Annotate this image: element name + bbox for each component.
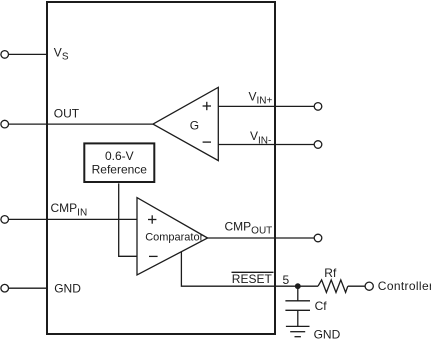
label RESET overline [232,271,274,273]
wire VS terminal to IC [9,53,47,55]
svg-text:0.6-V: 0.6-V [105,149,134,163]
label Cf [315,299,328,313]
svg-text:Cf: Cf [315,299,328,313]
svg-text:G: G [190,119,199,133]
svg-text:5: 5 [283,273,290,287]
wire junction to resistor [298,285,318,287]
wire VIN- to amp [218,144,314,146]
terminal CMPIN pin circle [1,216,9,224]
wire capacitor to ground [297,310,299,326]
label Comparator [145,231,203,243]
capacitor Cf [285,301,310,311]
terminal CMPOUT pin circle [314,234,322,242]
wire reference to comparator - input [119,183,137,256]
svg-text:CMPOUT: CMPOUT [225,219,273,236]
amp - input symbol [203,141,211,143]
svg-text:Rf: Rf [324,266,337,280]
pin number 5 [283,273,290,287]
label VIN+ [249,89,273,106]
wire CMPOUT from comparator apex [208,237,315,239]
terminal VS pin circle [1,51,9,59]
label RESET [232,272,273,286]
svg-text:Controller: Controller [378,279,431,293]
wire CMPIN terminal to comparator + input [9,218,138,220]
label GND (pin) [54,282,81,296]
terminal GND pin circle [1,284,9,292]
svg-text:GND: GND [54,282,81,296]
wire junction to capacitor [297,286,299,301]
wire resistor to controller terminal [348,285,365,287]
wire GND terminal to IC [9,287,47,289]
terminal OUT pin circle [1,120,9,128]
label CMPIN [51,201,88,218]
svg-text:VIN-: VIN- [250,129,271,146]
label OUT [54,107,80,121]
amp + input symbol [203,102,211,110]
op-amp G (gain amplifier, apex left) [153,87,218,160]
label Rf [324,266,337,280]
wire RESET net from comparator bottom edge to junction [181,252,298,287]
comparator U1 (apex right) [137,198,208,275]
label VS [54,45,69,62]
svg-text:VS: VS [54,45,69,62]
terminal VIN+ pin circle [314,103,322,111]
label 0.6-V Reference [92,149,148,176]
label G [190,119,199,133]
label GND (ground) [314,327,341,341]
terminal Controller circle [365,282,373,290]
svg-text:RESET: RESET [232,272,273,286]
svg-text:Comparator: Comparator [145,231,203,243]
svg-text:CMPIN: CMPIN [51,201,88,218]
comparator + input symbol [148,215,156,223]
wire OUT terminal to amp output [9,123,154,125]
svg-text:OUT: OUT [54,107,80,121]
IC body outline [47,2,275,334]
comparator - input symbol [149,255,158,257]
svg-text:VIN+: VIN+ [249,89,273,106]
svg-text:Reference: Reference [92,162,148,176]
resistor Rf zigzag [318,280,348,293]
label Controller [378,279,431,293]
terminal VIN- pin circle [314,141,322,149]
svg-text:GND: GND [314,327,341,341]
label CMPOUT [225,219,273,236]
label VIN- [250,129,271,146]
junction node dot [295,283,301,289]
0.6-V reference box [84,143,154,182]
ground symbol [286,326,310,336]
wire VIN+ to amp [218,105,314,107]
